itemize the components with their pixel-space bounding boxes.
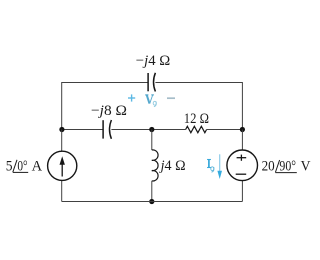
label 5/0 A xyxy=(6,158,42,174)
resistor 12 ohm xyxy=(186,126,207,132)
capacitor -j4 ohm top xyxy=(148,73,155,92)
svg-text:−j4 Ω: −j4 Ω xyxy=(136,53,171,69)
wire left rail upper lead to source xyxy=(61,130,63,152)
wire top right segment xyxy=(155,83,242,130)
wire top left segment xyxy=(62,83,148,130)
svg-text:V: V xyxy=(301,159,311,175)
current source 5/0 A xyxy=(48,151,77,180)
svg-text:5: 5 xyxy=(6,158,13,174)
node right xyxy=(240,127,245,132)
wire inductor top lead xyxy=(151,130,153,151)
capacitor -j8 ohm xyxy=(103,120,111,139)
voltage source 20/90 V xyxy=(227,150,258,181)
wire left rail lower lead xyxy=(61,180,63,201)
node bottom xyxy=(149,199,154,204)
svg-text:−j8 Ω: −j8 Ω xyxy=(91,103,127,119)
wire middle left xyxy=(62,129,103,131)
svg-text:j4 Ω: j4 Ω xyxy=(159,158,186,174)
wire middle center xyxy=(111,129,185,131)
node middle xyxy=(149,127,154,132)
wire right rail upper lead to source xyxy=(241,130,243,151)
label +Vg- cyan xyxy=(128,94,175,106)
inductor j4 ohm xyxy=(152,150,158,181)
wire inductor bottom lead xyxy=(151,181,153,202)
label 20/90 V xyxy=(262,159,311,175)
wire right rail lower lead xyxy=(241,181,243,202)
wire bottom xyxy=(62,201,243,203)
svg-text:A: A xyxy=(32,158,43,174)
wire middle right xyxy=(207,129,243,131)
node left xyxy=(59,127,64,132)
label Ig cyan with arrow xyxy=(207,154,222,179)
svg-text:12 Ω: 12 Ω xyxy=(184,111,209,127)
svg-text:20: 20 xyxy=(262,159,275,175)
